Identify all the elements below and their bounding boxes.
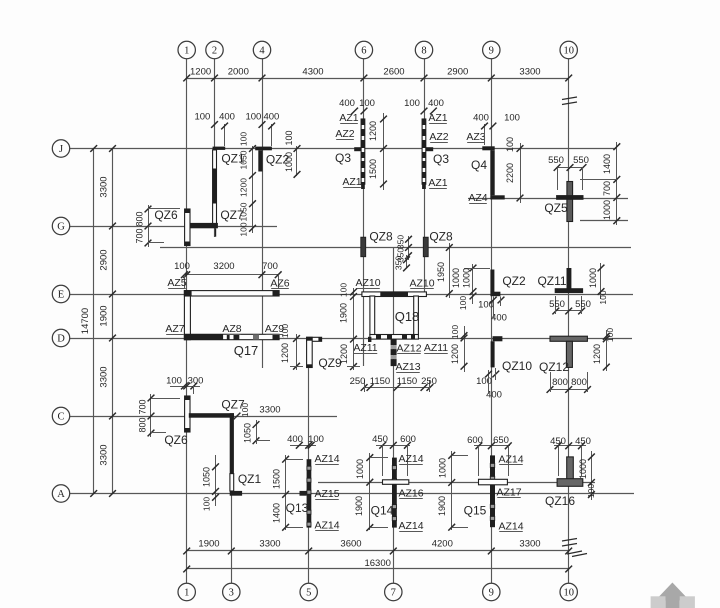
svg-text:550: 550 [573,155,589,166]
wire dimension chain axis6-8 [380,113,387,190]
wire dimension chain QZ11 right [598,263,605,299]
wire dimension 550 550 QZ11 [552,296,585,314]
svg-text:Q18: Q18 [395,309,420,324]
svg-text:Q3: Q3 [335,151,351,165]
svg-text:100: 100 [239,132,249,146]
svg-text:400: 400 [473,113,489,124]
label AZ14 Q13 bottom [314,520,339,532]
dimension label 4300 top [302,67,323,78]
dimension label 700 QZ5 chain [602,181,612,196]
svg-text:AZ15: AZ15 [314,488,339,500]
label AZ14 Q15 bottom [498,521,523,533]
node axis bubble 8 top [415,41,432,58]
svg-text:700: 700 [138,399,148,414]
dimension label 1950 [436,262,446,282]
dimension label 1000 QZ2E a [451,268,461,288]
label QZ11 [537,274,566,288]
dimension label 1050 QZ1 chain [239,150,249,169]
svg-text:1900: 1900 [99,305,110,326]
svg-text:1900: 1900 [437,496,447,516]
label QZ1 [221,152,245,166]
svg-text:AZ3: AZ3 [466,131,485,143]
node axis bubble 9 top [483,41,500,58]
svg-text:700: 700 [602,181,612,196]
wall QZ1 flange [213,147,226,150]
svg-text:AZ14: AZ14 [398,520,423,532]
svg-text:250: 250 [421,376,437,387]
wire axis 6 vertical [363,58,365,366]
svg-text:100: 100 [476,376,492,387]
svg-text:AZ14: AZ14 [314,453,339,465]
dimension label 550 QZ5 right [573,155,589,166]
svg-text:3300: 3300 [259,539,280,550]
node axis bubble 1 top [178,41,195,58]
svg-text:800: 800 [571,377,587,388]
wall Q18 corner stub [368,337,371,342]
dimension label 1400 QZ5 chain [602,154,612,174]
svg-text:100: 100 [245,112,261,123]
dimension label 1050 QZ1 bottom [202,467,212,487]
svg-text:1150: 1150 [370,376,390,387]
svg-text:3300: 3300 [519,67,540,78]
svg-text:1: 1 [184,46,189,57]
wire dimension chain QZ5 right [580,142,620,225]
dimension label 1150 Q18 left [370,376,390,387]
wall Q15 flange [479,479,508,485]
svg-text:9: 9 [489,46,494,57]
wall QZ9 vertical bar [307,337,313,367]
label AZ2 axis6 [335,128,354,140]
svg-text:AZ2: AZ2 [335,128,354,140]
svg-text:AZ1: AZ1 [428,177,447,189]
label QZ12 [539,360,569,374]
wall Q13 flange [300,491,307,496]
dimension labels 100 400 above QZ1 [194,112,234,146]
label AZ10 right [409,278,434,290]
svg-text:6: 6 [361,46,366,57]
svg-text:2600: 2600 [383,67,404,78]
wire axis G horizontal [70,226,277,228]
dimension label 550 QZ11 left [549,299,565,310]
wire left overall dimension line [90,145,97,497]
dimension label 1900 Q14 [354,496,364,516]
svg-text:1000: 1000 [578,459,588,479]
svg-text:1900: 1900 [354,496,364,516]
svg-text:Q13: Q13 [286,501,309,515]
dimension label 100 QZ1 chain [239,132,249,146]
dimension label 1900 Q15 [437,496,447,516]
wall QZ7 tail [215,228,217,236]
svg-text:C: C [57,412,64,423]
dimension label 800 QZ12 right [571,377,587,388]
dimension label 1200 top [190,67,211,78]
svg-text:E: E [58,290,64,301]
dimension label 100 QZ2 chain [284,130,294,145]
node axis bubble A left [52,485,69,502]
wall QZ8 left bar [361,237,366,257]
wall QZ5 horizontal bar [556,195,583,200]
svg-text:QZ10: QZ10 [502,359,532,373]
node axis bubble 1 bottom [178,583,195,600]
svg-text:AZ11: AZ11 [424,342,448,354]
wire dimension line Q17 top [181,271,282,288]
wall QZ6 bottom vertical bar [184,396,190,432]
wire dimension chain QZ1 bottom [212,455,219,506]
svg-text:1900: 1900 [198,539,219,550]
svg-text:1400: 1400 [272,503,282,523]
svg-text:7: 7 [391,588,396,599]
svg-text:550: 550 [549,299,565,310]
label AZ14 Q15 top [498,454,523,466]
svg-text:AZ5: AZ5 [167,277,186,289]
dimension labels 450 450 QZ16 [550,436,591,476]
dimension label 1200 QZ12 [592,344,602,364]
svg-text:4200: 4200 [432,539,453,550]
svg-text:100: 100 [586,484,596,498]
svg-text:9: 9 [489,588,494,599]
dimension label 1200 below AZ9 [280,334,303,370]
wire dimension chain Q13 [282,455,303,531]
svg-text:400: 400 [263,112,279,123]
wire axis D horizontal [70,338,632,340]
svg-text:QZ1: QZ1 [238,472,262,486]
svg-text:550: 550 [575,299,591,310]
label QZ8 right [429,230,453,244]
dimension label 1000 Q14 [355,459,365,479]
svg-text:1200: 1200 [239,178,249,197]
wall QZ1 stem [212,150,216,226]
label AZ5 [167,277,186,289]
wire axis 5 vertical [308,337,310,584]
label 3300 leader [234,405,281,420]
svg-text:100: 100 [174,261,190,272]
svg-text:QZ6: QZ6 [154,208,178,222]
svg-text:100: 100 [280,324,290,338]
svg-text:AZ11: AZ11 [353,342,377,354]
node axis bubble G left [52,217,69,234]
svg-text:Q4: Q4 [471,158,487,172]
wall QZ10 stem [491,341,495,367]
wall QZ2 flange [255,147,272,151]
label AZ11 right [424,342,448,354]
svg-text:100: 100 [605,328,615,342]
svg-text:1200: 1200 [592,344,602,364]
svg-text:AZ14: AZ14 [498,521,523,533]
svg-text:1200: 1200 [280,343,290,363]
node axis bubble 4 top [253,41,270,58]
svg-text:QZ9: QZ9 [318,356,342,370]
svg-text:400: 400 [339,98,355,109]
wall QZ6 top vertical bar [184,209,190,246]
dimension label 100 right of QZ7 [240,403,250,417]
dimension label 2000 top [228,67,249,78]
svg-text:800: 800 [552,377,568,388]
svg-text:2: 2 [212,46,217,57]
node axis bubble 9 bottom [483,583,500,600]
dimension label 100 QZ2E [458,296,468,310]
wall QZ1 bottom foot [230,491,242,496]
label QZ16 [545,494,575,508]
wall QZ5 vertical bar [567,182,573,222]
node axis bubble 5 bottom [300,583,317,600]
svg-text:350: 350 [394,256,404,270]
break mark bottom dimension right [567,551,587,557]
wire axis 4 vertical [262,58,264,368]
dimension label 100 Q17 [174,261,190,272]
dimension labels 100 400 below QZ2E [478,297,507,324]
dimension label 1000 QZ11 [588,268,598,288]
dimension labels 400 100 axis6 [339,98,375,114]
svg-text:AZ6: AZ6 [270,278,289,290]
svg-text:1950: 1950 [436,262,446,282]
svg-text:1050: 1050 [243,423,253,443]
wire dimension chain QZ12 right [603,330,610,371]
wire leader line below QZ5 [580,220,628,222]
dimension label 350 QZ8 upper [396,235,406,249]
dimension labels 100 400 axis8 [404,98,444,114]
wire axis A horizontal [70,493,634,495]
wire dimension 800 800 QZ12 [547,372,591,393]
node axis bubble 7 bottom [385,583,402,600]
dimension label 1000 QZ2E b [462,268,472,288]
svg-text:600: 600 [400,434,416,445]
label Q14 [371,504,394,518]
dimension label 100 left of Q18 [339,283,349,297]
label QZ6 bottom [164,433,188,447]
svg-text:10: 10 [563,588,574,599]
wire dimension chain QZ2 [294,145,301,178]
dimension label 250 Q18 right [421,376,437,387]
dimension label 1900 left of Q18 [339,303,349,323]
dimension label 3300 bottom [259,539,280,550]
wire dimension chain left of Q18 [347,288,360,370]
wall Q17 top [184,291,279,296]
svg-text:QZ6: QZ6 [164,433,188,447]
svg-text:1000: 1000 [588,268,598,288]
dimension label 1500 Q13 [272,469,282,489]
svg-text:AZ2: AZ2 [429,131,448,143]
dimension label 100 QZ12 [605,328,615,342]
label Q17 [234,343,259,358]
svg-text:AZ16: AZ16 [398,488,423,500]
svg-text:AZ4: AZ4 [468,192,487,204]
wire axis 1 vertical [186,58,188,584]
label AZ11 left [353,342,377,354]
dimension label 3300 left [99,176,110,197]
label Q13 [286,501,309,515]
wall Q14 bar [392,458,397,528]
label AZ8 [222,323,241,335]
dimension label 3300 top [519,67,540,78]
wall QZ2E stem [490,270,494,293]
label AZ9 [265,323,284,335]
svg-text:100: 100 [339,283,349,297]
svg-text:1050: 1050 [239,150,249,169]
svg-text:1200: 1200 [190,67,211,78]
wall Q18 left [370,296,375,335]
label AZ14 Q14 top [398,453,423,465]
wire bottom overall dimension line [183,566,572,573]
svg-text:100: 100 [504,113,520,124]
svg-text:100: 100 [194,112,210,123]
dimension label 100 Q4 chain [505,137,515,152]
svg-text:8: 8 [421,46,426,57]
svg-text:Q17: Q17 [234,343,259,358]
label AZ6 [270,278,289,290]
svg-text:AZ1: AZ1 [342,176,361,188]
dimension label 3300 left [99,444,110,465]
wall Q4 stem [490,150,494,195]
dimension label 700 QZ6 top [135,228,145,243]
dimension label 1400 Q13 [272,503,282,523]
svg-text:400: 400 [219,112,235,123]
wire dimension chain QZ1 [249,145,256,233]
node axis bubble 6 top [355,41,372,58]
svg-text:800: 800 [135,211,145,226]
wire long dimension line below G [160,247,631,249]
dimension label 2900 left [99,249,110,270]
label QZ8 left [369,230,393,244]
svg-text:1900: 1900 [339,303,349,323]
label AZ13 [395,361,420,373]
dimension label 800 QZ12 left [552,377,568,388]
svg-text:AZ12: AZ12 [396,343,421,355]
dimension label 800 QZ6 bottom [138,417,148,432]
node axis bubble 3 bottom [223,583,240,600]
svg-text:QZ5: QZ5 [544,201,568,215]
svg-text:QZ2: QZ2 [502,274,526,288]
svg-text:100: 100 [240,403,250,417]
label AZ1 axis6 top [339,112,358,124]
label AZ15 Q13 [314,488,339,500]
dimension label 1000 QZ2 chain [284,152,294,172]
dimension label 1900 left [99,305,110,326]
dimension label 1500 axis6-8 [368,159,378,179]
label Q15 [464,504,487,518]
svg-text:3300: 3300 [519,539,540,550]
svg-text:QZ16: QZ16 [545,494,575,508]
label AZ1 axis8 bottom [428,177,447,189]
wire dimension chain QZ16 [588,451,595,500]
wire dimension line 550 550 QZ5 [554,164,587,190]
dimension label 2600 top [383,67,404,78]
svg-text:1000: 1000 [451,268,461,288]
wall QZ7 bottom horizontal bar [189,413,234,418]
svg-text:3200: 3200 [213,261,234,272]
node axis bubble J left [52,140,69,157]
dimension label 1150 Q18 right [397,376,417,387]
dimension labels 400 100 Q13 [287,434,324,449]
svg-text:1050: 1050 [202,467,212,487]
dimension label 550 QZ11 right [575,299,591,310]
svg-text:1500: 1500 [368,159,378,179]
svg-text:100: 100 [284,130,294,145]
dimension label 100 right of AZ9 [280,324,290,338]
dimension label 4200 bottom [432,539,453,550]
svg-text:350: 350 [396,235,406,249]
svg-text:100: 100 [598,290,608,304]
svg-text:D: D [57,334,65,345]
label AZ7 [165,323,184,335]
dimension label 350 Q18 [394,255,410,271]
svg-text:3: 3 [229,588,234,599]
svg-text:800: 800 [138,417,148,432]
svg-text:5: 5 [306,588,311,599]
svg-text:1000: 1000 [284,152,294,172]
label AZ14 Q13 top [314,453,339,465]
svg-text:Q14: Q14 [371,504,394,518]
svg-text:AZ14: AZ14 [398,453,423,465]
wire dimension chain QZ2E [464,264,490,304]
label Q18 [395,309,420,324]
wire axis E horizontal [70,294,633,296]
svg-text:10: 10 [563,46,574,57]
dimension label 3200 Q17 [213,261,234,272]
wall Q17 left [184,291,190,340]
label AZ17 Q15 [496,487,521,499]
dimension label 100 QZ11 [598,290,608,304]
wire flange alignment line row A [318,482,595,484]
wall Q13 bar [307,459,312,527]
wire leader line right of Q4 foot [468,198,628,200]
wall Q3 axis6 [354,119,365,189]
dimension label 100 QZ16 [586,484,596,498]
dimension labels 600 650 Q15 [467,435,512,476]
dimension label 3300 bottom [519,539,540,550]
label QZ2 [266,153,290,167]
dimension label 100 QZ1 chain [239,222,249,236]
label AZ1 axis6 bottom [342,176,361,188]
wall Q17 bottom [184,334,279,339]
wire dimension line Q18 bottom [361,380,434,392]
wall QZ12 bar [550,336,587,341]
node axis bubble 10 bottom [560,583,577,600]
wire axis J horizontal [70,148,617,150]
node axis bubble C left [52,407,69,424]
wire dimension QZ8 350 [405,236,412,260]
svg-text:1: 1 [184,588,189,599]
svg-text:3300: 3300 [259,405,280,416]
svg-text:AZ8: AZ8 [222,323,241,335]
label AZ3 [466,131,485,143]
label AZ4 [468,192,487,204]
dimension label 16300 [364,558,390,569]
dimension label 2900 top [447,67,468,78]
dimension label 1200 QZ10 [450,344,460,364]
label QZ7 bottom [221,398,245,412]
svg-text:100: 100 [202,497,212,511]
wall QZ2 stem [258,150,262,171]
watermark logo [651,583,695,608]
node axis bubble D left [52,329,69,346]
wire axis 3 vertical [231,420,233,584]
wall Q18 top [362,292,427,297]
svg-text:1000: 1000 [462,268,472,288]
wall QZ16 stem [567,457,574,484]
dimension label 1000 Q15 [438,458,448,478]
svg-text:1500: 1500 [272,469,282,489]
svg-text:1150: 1150 [397,376,417,387]
dimension labels 100 300 QZ6 [166,376,203,395]
svg-text:Q15: Q15 [464,504,487,518]
wall Q3 axis8 [422,119,433,189]
wire dimension chain QZ6 top [145,205,180,247]
wire dimension chain Q4 [517,143,524,203]
dimension label 700 QZ6 bottom [138,399,148,414]
dimension label 3300 left [99,366,110,387]
dimension labels 100 400 above QZ2 [245,112,279,146]
svg-text:16300: 16300 [364,558,390,569]
